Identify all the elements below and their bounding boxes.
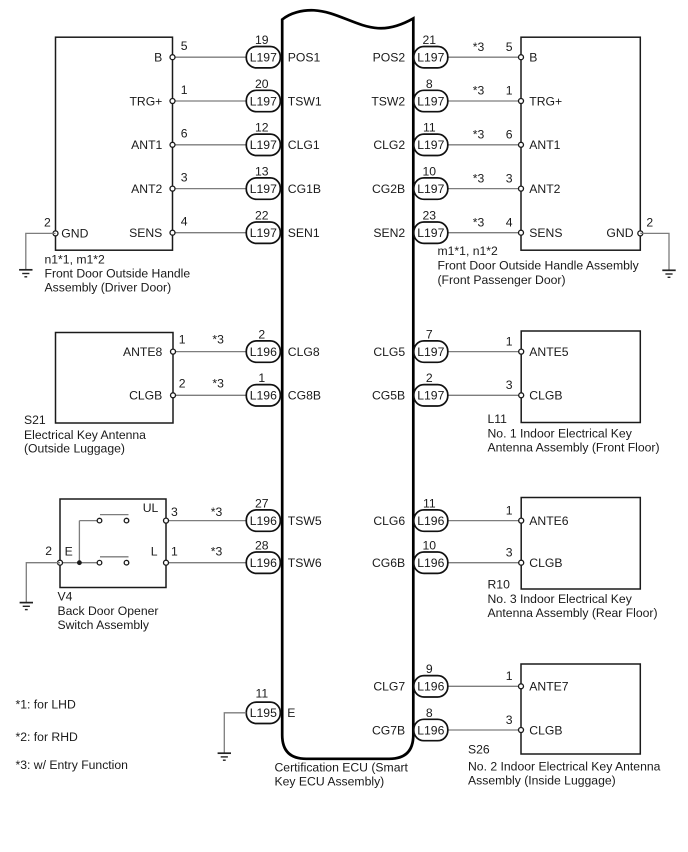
svg-text:10: 10 [423,164,437,178]
svg-text:SEN2: SEN2 [373,226,405,240]
svg-text:5: 5 [506,40,513,54]
connector L196 pin 8 CG7B [372,706,448,741]
svg-text:TSW6: TSW6 [288,556,322,570]
svg-text:3: 3 [506,713,513,727]
svg-text:2: 2 [426,371,433,385]
svg-text:L197: L197 [250,94,277,108]
svg-text:20: 20 [255,77,269,91]
pin 2 CLGB of S21 [129,376,186,402]
ground (passenger door) [662,270,675,277]
svg-text:L196: L196 [250,345,277,359]
pin 3 ANT2 of passenger door box [506,171,561,196]
svg-text:Back Door Opener: Back Door Opener [58,604,159,618]
pin 3 ANT2 of driver door box [131,170,188,196]
svg-text:ANT2: ANT2 [529,182,560,196]
svg-text:ANT2: ANT2 [131,182,162,196]
svg-text:L197: L197 [250,51,277,65]
connector L195 pin 11 E [246,687,295,724]
connector L196 pin 9 CLG7 [373,662,447,697]
svg-text:TRG+: TRG+ [129,94,162,108]
svg-text:1: 1 [506,334,513,348]
svg-text:B: B [154,51,162,65]
connector L197 pin 12 CLG1 [246,121,320,156]
svg-text:SEN1: SEN1 [288,226,320,240]
svg-text:ANTE6: ANTE6 [529,514,569,528]
label for ECU U1 [275,761,409,789]
svg-text:8: 8 [426,77,433,91]
pin 1 ANTE8 of S21 [123,333,186,359]
svg-text:21: 21 [423,33,437,47]
label block for driver door box [45,252,191,294]
svg-text:S21: S21 [24,413,46,427]
svg-text:3: 3 [506,378,513,392]
svg-text:CG1B: CG1B [288,182,321,196]
svg-text:POS2: POS2 [373,51,406,65]
wire CLG7 to ANTE7 (S26) [448,685,521,687]
pin 1 ANTE6 of R10 [506,503,569,528]
svg-text:S26: S26 [468,743,490,757]
pin 1 ANTE7 of S26 [506,669,569,694]
svg-text:L197: L197 [417,226,444,240]
pin 1 TRG+ of driver door box [129,83,187,109]
svg-text:CLG1: CLG1 [288,138,320,152]
svg-text:L196: L196 [250,389,277,403]
switch UL (back door opener) [79,515,128,523]
svg-text:28: 28 [255,539,269,553]
svg-text:L197: L197 [250,182,277,196]
svg-text:L197: L197 [250,138,277,152]
svg-text:(Front Passenger Door): (Front Passenger Door) [438,273,566,287]
ground (V4) [20,603,33,610]
wire GND to ground (passenger door) [640,233,669,270]
connector L197 pin 21 POS2 [373,33,448,68]
svg-text:L: L [151,544,158,558]
svg-text:1: 1 [258,371,265,385]
svg-text:CG8B: CG8B [288,389,321,403]
component box L11 No. 1 Indoor Electrical Key Antenna Assembly (Front Floor) [521,331,640,423]
svg-text:2: 2 [258,327,265,341]
pin 2 GND of driver door box [44,215,89,240]
wire CG7B to CLGB (S26) [448,729,521,731]
svg-text:No. 3 Indoor Electrical Key: No. 3 Indoor Electrical Key [488,592,633,606]
svg-text:E: E [65,544,73,558]
wire CLGB to CG8B [173,394,246,396]
connector L196 pin 10 CG6B [372,539,448,574]
svg-text:*3: *3 [473,40,485,54]
svg-text:2: 2 [45,544,52,558]
svg-text:R10: R10 [488,578,511,592]
svg-text:7: 7 [426,327,433,341]
svg-text:CLG5: CLG5 [373,345,405,359]
svg-text:n1*1, m1*2: n1*1, m1*2 [45,252,106,266]
wire B to POS1 [173,56,247,58]
svg-text:ANTE5: ANTE5 [529,345,569,359]
svg-text:L197: L197 [417,182,444,196]
svg-text:3: 3 [181,170,188,184]
pin 3 CLGB of L11 [506,378,563,403]
wire TSW2 to TRG+ (passenger) [448,100,521,102]
svg-text:L197: L197 [417,138,444,152]
svg-text:UL: UL [143,501,159,515]
wire CLG6 to ANTE6 (R10) [448,520,521,522]
connector L197 pin 22 SEN1 [246,209,320,244]
connector L196 pin 1 CG8B [246,371,321,406]
svg-text:3: 3 [506,171,513,185]
svg-text:1: 1 [506,84,513,98]
svg-text:L195: L195 [250,706,277,720]
wire E to ground (V4) [26,563,60,603]
svg-text:V4: V4 [58,590,73,604]
svg-text:Assembly (Driver Door): Assembly (Driver Door) [45,280,172,294]
svg-text:L196: L196 [417,723,444,737]
wire UL switch to TSW5 [166,520,246,522]
connector L196 pin 27 TSW5 [246,496,322,531]
switch L (back door opener) [60,557,129,565]
svg-text:1: 1 [506,669,513,683]
svg-text:*3: *3 [473,128,485,142]
connector L196 pin 11 CLG6 [373,496,447,531]
label block for S21 [24,413,146,456]
svg-text:19: 19 [255,33,269,47]
svg-text:2: 2 [44,215,51,229]
svg-text:CLGB: CLGB [529,556,562,570]
svg-text:11: 11 [423,121,436,135]
junction (V4 E node) [77,560,82,565]
connector L197 pin 8 TSW2 [371,77,447,112]
pin 2 E of V4 [45,544,73,565]
wire TRG+ to TSW1 [173,100,247,102]
svg-text:Electrical Key Antenna: Electrical Key Antenna [24,428,146,442]
svg-text:10: 10 [423,539,437,553]
svg-text:6: 6 [506,128,513,142]
svg-text:*3: *3 [212,376,224,390]
pin 5 B of passenger door box [506,40,538,65]
svg-text:13: 13 [255,164,269,178]
svg-text:*2: for RHD: *2: for RHD [16,730,79,744]
pin 3 CLGB of R10 [506,546,563,571]
svg-text:Switch Assembly: Switch Assembly [58,618,150,632]
svg-text:1: 1 [179,333,186,347]
component box Front Door Outside Handle Assembly (Driver Door) [56,37,173,250]
svg-text:Key ECU Assembly): Key ECU Assembly) [275,775,385,789]
svg-text:TRG+: TRG+ [529,94,562,108]
svg-text:L11: L11 [488,412,508,426]
wire ANT2 to CG1B [173,188,247,190]
wire internal vertical (V4) [78,521,80,563]
svg-text:4: 4 [506,215,513,229]
ground (ECU E) [218,753,231,760]
pin 1 TRG+ of passenger door box [506,84,562,109]
component box V4 Back Door Opener Switch Assembly [60,499,166,588]
svg-text:No. 2 Indoor Electrical Key An: No. 2 Indoor Electrical Key Antenna [468,759,661,773]
pin 3 CLGB of S26 [506,713,563,738]
wire SEN2 to SENS (passenger) [448,232,521,234]
svg-text:CG2B: CG2B [372,182,405,196]
svg-text:CLG2: CLG2 [373,138,405,152]
svg-text:Front Door Outside Handle: Front Door Outside Handle [45,266,191,280]
svg-text:*3: *3 [211,505,223,519]
svg-text:L196: L196 [250,556,277,570]
svg-text:L197: L197 [417,345,444,359]
wire POS2 to B (passenger) [448,56,521,58]
svg-text:CLGB: CLGB [529,723,562,737]
wire CLG5 to ANTE5 (L11) [448,351,521,353]
pin 6 ANT1 of driver door box [131,127,188,153]
wire CLG2 to ANT1 (passenger) [448,144,521,146]
svg-text:27: 27 [255,496,269,510]
svg-text:Assembly (Inside Luggage): Assembly (Inside Luggage) [468,774,616,788]
wire SENS to SEN1 [173,232,247,234]
svg-text:CG6B: CG6B [372,556,405,570]
label block for R10 [488,578,658,621]
wire E to ground (ECU) [224,713,246,753]
svg-text:L197: L197 [417,51,444,65]
connector L197 pin 11 CLG2 [373,121,447,156]
wire ANT1 to CLG1 [173,144,247,146]
pin 1 L of V4 [151,544,178,565]
svg-text:*3: *3 [211,544,223,558]
svg-text:POS1: POS1 [288,51,321,65]
svg-text:3: 3 [506,546,513,560]
svg-text:Antenna Assembly (Rear Floor): Antenna Assembly (Rear Floor) [488,606,658,620]
svg-text:4: 4 [181,215,188,229]
component box Front Door Outside Handle Assembly (Front Passenger Door) [521,37,640,250]
component box S26 No. 2 Indoor Electrical Key Antenna Assembly (Inside Luggage) [521,664,640,754]
pin 4 SENS of driver door box [129,215,188,241]
svg-text:L196: L196 [417,556,444,570]
svg-text:1: 1 [506,503,513,517]
svg-text:GND: GND [61,227,88,241]
svg-text:1: 1 [171,544,178,558]
svg-text:3: 3 [171,505,178,519]
svg-text:CG7B: CG7B [372,723,405,737]
wire CG2B to ANT2 (passenger) [448,188,521,190]
svg-text:Antenna Assembly (Front Floor): Antenna Assembly (Front Floor) [488,441,660,455]
svg-text:L197: L197 [417,389,444,403]
svg-text:*3: *3 [473,84,485,98]
svg-text:TSW1: TSW1 [288,94,322,108]
svg-text:ANT1: ANT1 [131,138,162,152]
pin 5 B of driver door box [154,39,188,65]
svg-text:L196: L196 [250,514,277,528]
label block for V4 [58,590,159,633]
ECU U1 Certification ECU (Smart Key ECU Assembly) body [282,10,413,759]
connector L196 pin 2 CLG8 [246,327,320,362]
connector L197 pin 10 CG2B [372,164,448,199]
component box R10 No. 3 Indoor Electrical Key Antenna Assembly (Rear Floor) [521,498,640,590]
component box S21 Electrical Key Antenna (Outside Luggage) [56,333,174,424]
svg-text:GND: GND [606,226,633,240]
svg-text:CLGB: CLGB [529,389,562,403]
svg-text:E: E [287,706,295,720]
pin 3 UL of V4 [143,501,178,523]
svg-text:6: 6 [181,127,188,141]
svg-text:*1: for LHD: *1: for LHD [16,698,76,712]
svg-text:5: 5 [181,39,188,53]
pin 2 GND of passenger door box [606,215,653,240]
svg-text:9: 9 [426,662,433,676]
svg-text:ANT1: ANT1 [529,138,560,152]
svg-text:2: 2 [179,376,186,390]
svg-text:L196: L196 [417,680,444,694]
svg-text:11: 11 [255,687,268,701]
label block for passenger door box [438,244,640,287]
svg-text:SENS: SENS [529,226,562,240]
svg-text:Front Door Outside Handle Asse: Front Door Outside Handle Assembly [438,259,640,273]
svg-text:B: B [529,51,537,65]
svg-text:22: 22 [255,209,269,223]
svg-text:CLGB: CLGB [129,389,162,403]
label block for S26 [468,743,661,788]
svg-text:*3: *3 [212,333,224,347]
svg-text:*3: w/ Entry Function: *3: w/ Entry Function [16,758,128,772]
svg-text:*3: *3 [473,171,485,185]
svg-text:ANTE8: ANTE8 [123,345,163,359]
svg-text:TSW2: TSW2 [371,94,405,108]
wire CG6B to CLGB (R10) [448,562,521,564]
wire L switch to TSW6 [166,562,246,564]
connector L197 pin 19 POS1 [246,33,320,68]
pin 6 ANT1 of passenger door box [506,128,561,153]
connector L197 pin 7 CLG5 [373,327,447,362]
svg-text:2: 2 [646,215,653,229]
svg-text:L197: L197 [250,226,277,240]
svg-text:8: 8 [426,706,433,720]
svg-text:Certification ECU (Smart: Certification ECU (Smart [275,761,409,775]
connector L197 pin 13 CG1B [246,164,321,199]
label block for L11 [488,412,660,455]
svg-text:1: 1 [181,83,188,97]
svg-text:23: 23 [423,209,437,223]
svg-text:L196: L196 [417,514,444,528]
svg-text:*3: *3 [473,215,485,229]
wire GND to ground (driver door) [26,233,56,269]
svg-text:L197: L197 [417,94,444,108]
svg-text:CG5B: CG5B [372,389,405,403]
svg-text:ANTE7: ANTE7 [529,680,569,694]
svg-text:CLG8: CLG8 [288,345,320,359]
svg-text:m1*1, n1*2: m1*1, n1*2 [438,244,499,258]
svg-text:No. 1 Indoor Electrical Key: No. 1 Indoor Electrical Key [488,427,633,441]
connector L197 pin 23 SEN2 [373,209,447,244]
ground (driver door) [19,270,32,277]
pin 1 ANTE5 of L11 [506,334,569,359]
connector L197 pin 2 CG5B [372,371,448,406]
connector L196 pin 28 TSW6 [246,539,322,574]
svg-text:11: 11 [423,496,436,510]
svg-text:12: 12 [255,121,269,135]
wire CG5B to CLGB (L11) [448,394,521,396]
svg-text:(Outside Luggage): (Outside Luggage) [24,442,125,456]
svg-text:SENS: SENS [129,226,162,240]
wire ANTE8 to CLG8 [173,351,246,353]
svg-text:CLG6: CLG6 [373,514,405,528]
svg-text:TSW5: TSW5 [288,514,322,528]
connector L197 pin 20 TSW1 [246,77,322,112]
pin 4 SENS of passenger door box [506,215,563,240]
svg-text:CLG7: CLG7 [373,680,405,694]
